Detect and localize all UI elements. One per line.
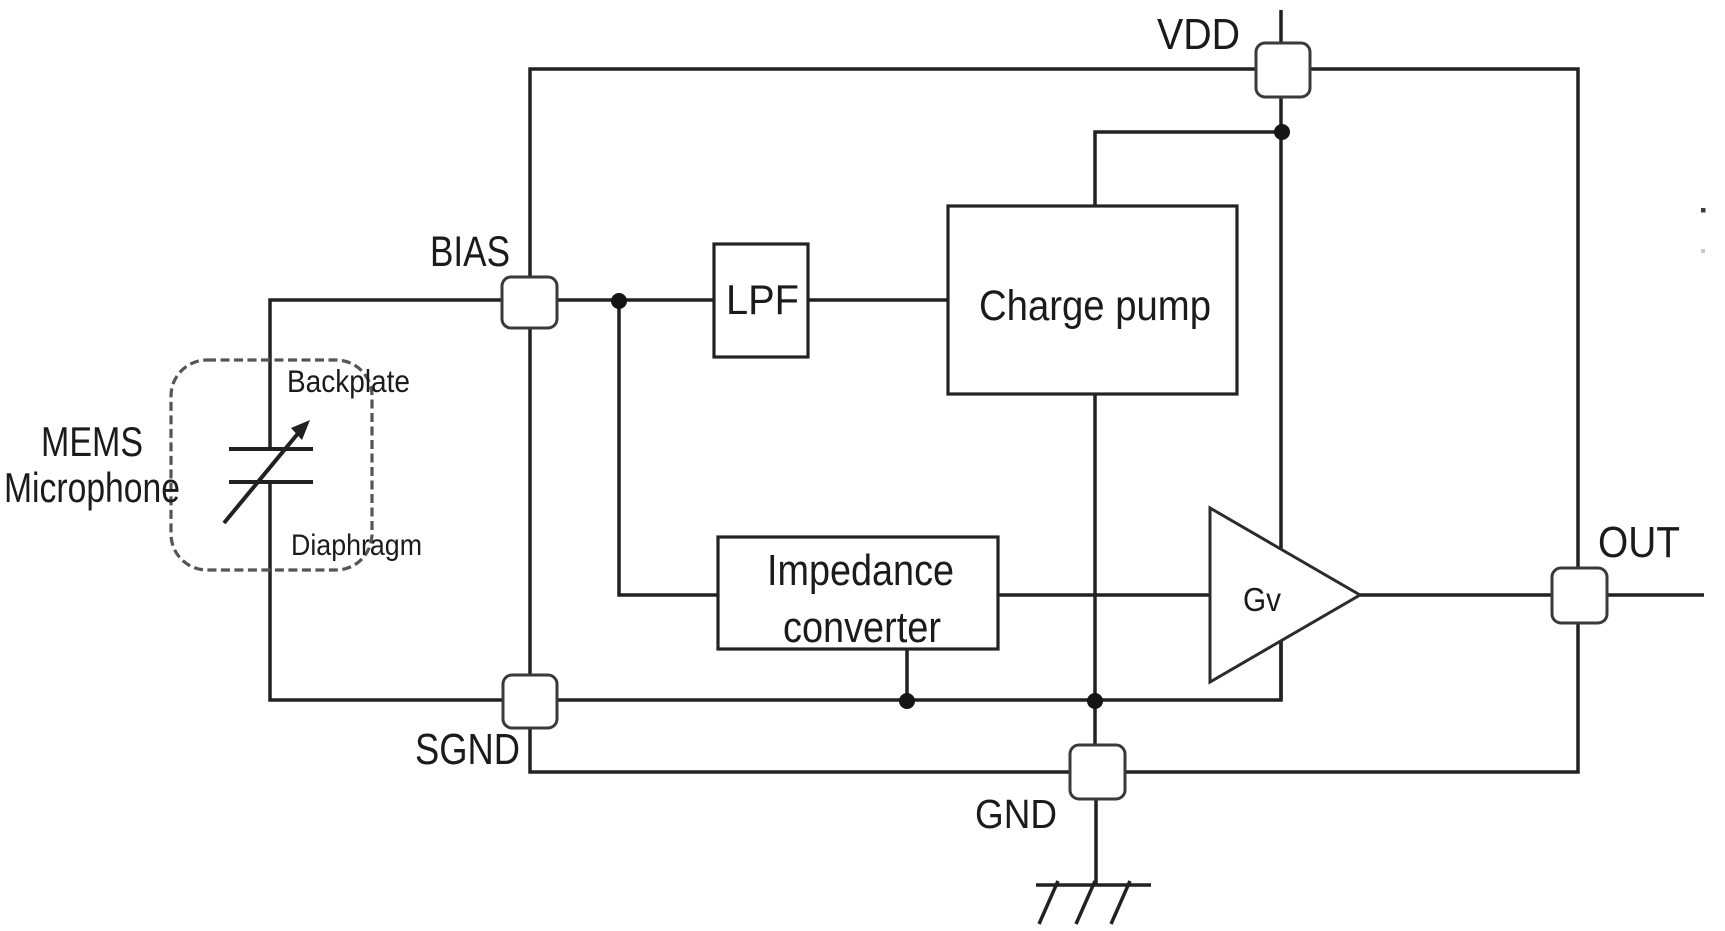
node speck artifact right margin lower <box>1701 249 1705 253</box>
junction dot BIAS node <box>611 293 627 309</box>
svg-text:converter: converter <box>783 603 941 652</box>
pad OUT <box>1552 568 1607 623</box>
pad BIAS <box>502 277 557 328</box>
svg-text:LPF: LPF <box>726 276 799 323</box>
wire VDD vertical (x1281 from top stub through pad, junction, down to amp/sgnd rail) <box>1279 10 1283 700</box>
svg-text:BIAS: BIAS <box>430 229 510 276</box>
node speck artifact right margin upper <box>1701 208 1706 213</box>
block Impedance converter <box>718 537 998 649</box>
variable capacitor arrow shaft <box>224 431 300 523</box>
wire BIAS node branch down to impedance converter input <box>619 300 718 595</box>
pad VDD <box>1256 43 1310 97</box>
wire BIAS rail (mic corner to LPF to charge pump, y300) <box>270 300 948 449</box>
pad SGND <box>503 675 557 728</box>
block Charge pump <box>948 206 1237 394</box>
svg-text:VDD: VDD <box>1157 10 1240 59</box>
block LPF <box>714 244 808 357</box>
variable capacitor top plate (Backplate) <box>229 447 313 451</box>
junction dot VDD node <box>1274 124 1290 140</box>
pad GND <box>1070 745 1125 799</box>
junction dot SGND rail / impedance converter <box>899 693 915 709</box>
svg-text:Diaphragm: Diaphragm <box>291 529 422 562</box>
svg-text:MEMS: MEMS <box>41 418 143 465</box>
wire GND pad down to earth symbol <box>1094 799 1098 885</box>
wire outer IC boundary loop (top rail y69, right side x1578, bottom rail y772, left side x530) <box>530 69 1578 772</box>
variable capacitor arrowhead <box>291 420 310 440</box>
wire impedance converter output to Gv amp input <box>998 593 1210 597</box>
wire Gv amp output to OUT pad and beyond <box>1360 593 1704 597</box>
wire impedance converter bottom stub to SGND rail <box>905 649 909 701</box>
op-amp Gv triangle <box>1210 508 1360 682</box>
variable capacitor bottom plate (Diaphragm) <box>229 480 313 484</box>
svg-text:Backplate: Backplate <box>287 363 410 399</box>
svg-text:Charge pump: Charge pump <box>979 282 1211 330</box>
wire mic bottom plate down to SGND rail, rail to x1281 then up to amp bottom <box>270 482 1281 700</box>
MEMS microphone dashed enclosure <box>171 360 372 570</box>
wire charge pump top hook to VDD junction <box>1095 132 1281 206</box>
junction dot SGND rail / GND stub <box>1087 693 1103 709</box>
svg-text:GND: GND <box>975 791 1057 837</box>
svg-text:Microphone: Microphone <box>4 464 180 511</box>
wire charge pump bottom stub down through SGND rail to GND pad <box>1093 394 1097 745</box>
svg-text:Impedance: Impedance <box>767 546 954 595</box>
ground symbol (earth) <box>1036 881 1151 924</box>
svg-text:Gv: Gv <box>1243 581 1281 618</box>
svg-text:SGND: SGND <box>415 725 520 774</box>
svg-text:OUT: OUT <box>1598 518 1680 567</box>
